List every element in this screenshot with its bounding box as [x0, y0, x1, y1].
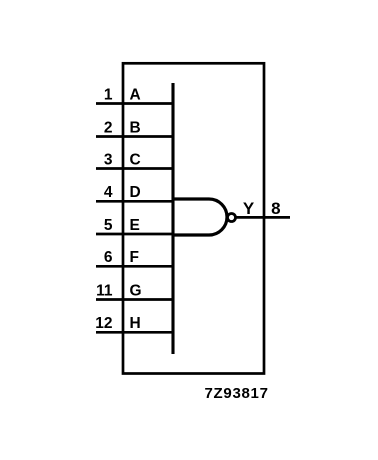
- svg-text:4: 4: [104, 184, 113, 201]
- wire pin 5 input E: [96, 233, 174, 236]
- wire pin 12 input H: [96, 331, 174, 334]
- IC package boundary U1: [123, 63, 264, 373]
- svg-text:F: F: [130, 249, 139, 266]
- svg-text:2: 2: [104, 119, 113, 136]
- svg-text:Y: Y: [243, 199, 255, 218]
- svg-text:6: 6: [104, 249, 113, 266]
- svg-text:11: 11: [96, 282, 113, 299]
- wire pin 3 input C: [96, 167, 174, 170]
- svg-text:B: B: [130, 119, 141, 136]
- wire output Y: [236, 216, 290, 219]
- svg-text:12: 12: [95, 315, 112, 332]
- wire pin 1 input A: [96, 102, 174, 105]
- svg-text:E: E: [130, 217, 140, 234]
- svg-text:7Z93817: 7Z93817: [205, 385, 269, 402]
- svg-text:5: 5: [104, 217, 113, 234]
- svg-text:8: 8: [271, 199, 280, 218]
- svg-text:G: G: [130, 282, 142, 299]
- input bus wire: [171, 83, 174, 354]
- NAND inverter bubble: [228, 214, 236, 222]
- svg-text:3: 3: [104, 151, 113, 168]
- svg-text:C: C: [130, 151, 141, 168]
- wire pin 6 input F: [96, 265, 174, 268]
- svg-text:D: D: [130, 184, 141, 201]
- svg-text:A: A: [130, 86, 141, 103]
- svg-text:1: 1: [104, 86, 113, 103]
- wire pin 11 input G: [96, 298, 174, 301]
- wire pin 2 input B: [96, 135, 174, 138]
- svg-text:H: H: [130, 315, 141, 332]
- wire pin 4 input D: [96, 200, 174, 203]
- NAND gate body: [173, 199, 227, 235]
